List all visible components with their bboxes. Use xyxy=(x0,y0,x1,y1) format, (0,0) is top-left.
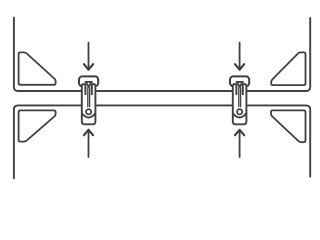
gusset top-left xyxy=(19,52,56,84)
left top arrow xyxy=(88,43,90,69)
left fastener saddle curve xyxy=(82,113,96,117)
right fastener body mask xyxy=(232,85,247,124)
right fastener pin wedge xyxy=(237,82,243,87)
right top arrow xyxy=(239,43,241,69)
right fastener slot xyxy=(239,88,241,107)
right fastener head xyxy=(230,76,249,86)
left fastener barrel xyxy=(82,84,96,124)
right fastener saddle curve xyxy=(233,113,247,117)
left bottom arrow xyxy=(88,131,90,158)
left fastener body mask xyxy=(81,85,96,124)
left fastener pin wedge xyxy=(86,82,92,87)
right fastener eyelet xyxy=(237,109,242,114)
right fastener barrel xyxy=(233,84,247,124)
left fastener head xyxy=(79,76,98,86)
bottom rail and side walls xyxy=(14,105,310,178)
left fastener slot xyxy=(88,88,90,107)
left fastener eyelet xyxy=(86,109,91,114)
gusset top-right xyxy=(271,52,305,85)
gusset bottom-left xyxy=(19,110,56,141)
gusset bottom-right xyxy=(271,110,306,142)
top rail and side walls xyxy=(14,18,310,91)
right bottom arrow xyxy=(239,131,241,158)
